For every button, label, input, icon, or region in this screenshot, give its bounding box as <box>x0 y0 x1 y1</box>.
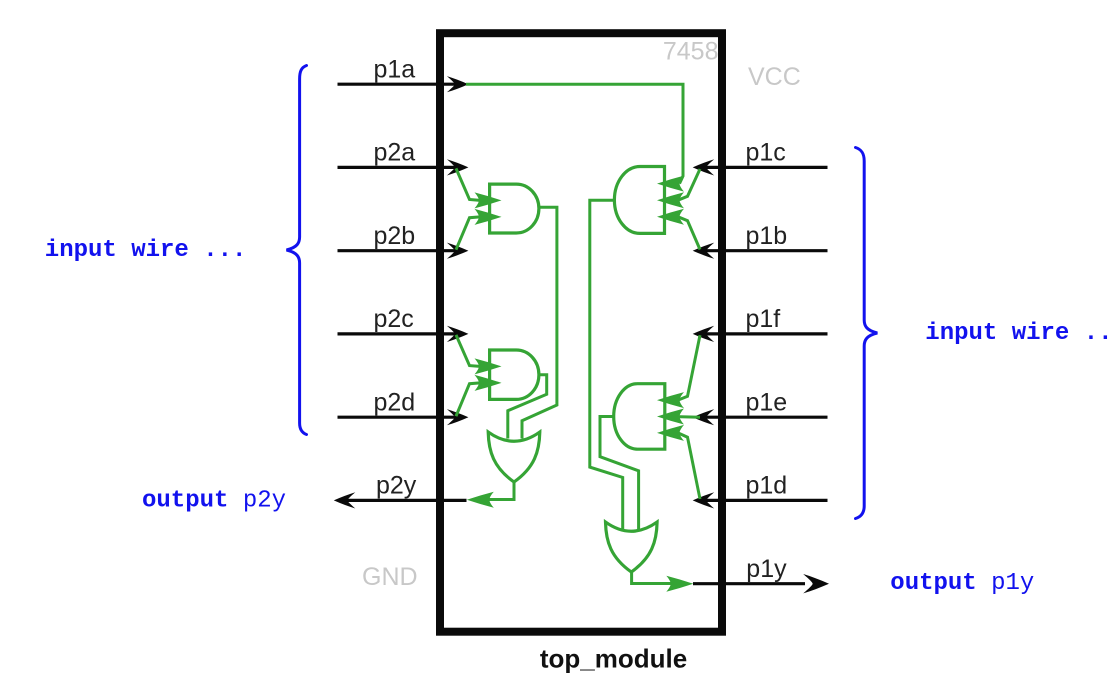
and gate U3 (p1a AND p1c AND p1b), mirrored <box>614 167 664 234</box>
wire OR2 output to p1y <box>632 571 694 592</box>
wire p1b to and gate U3 input 3 <box>657 209 700 250</box>
net B wire U2 output to or gate OR1 input 1 <box>508 375 547 439</box>
svg-text:GND: GND <box>362 563 418 591</box>
left brace grouping input pins <box>287 66 307 435</box>
svg-text:p1d: p1d <box>746 472 788 500</box>
and gate U2 (p2c AND p2d) <box>490 350 539 399</box>
net C wire U3 output to or gate OR2 input 1 <box>590 200 623 530</box>
svg-text:p1f: p1f <box>746 305 781 333</box>
svg-text:output p2y: output p2y <box>142 488 286 515</box>
wire p1a to and gate U3 input 1 <box>466 84 684 191</box>
svg-text:p1b: p1b <box>746 222 788 250</box>
wire p2c to and gate U2 input 1 <box>456 335 502 375</box>
wire p2b to and gate U1 input 2 <box>456 209 502 250</box>
input pin p2d <box>338 388 469 425</box>
svg-text:p2d: p2d <box>374 388 416 416</box>
net D wire U4 output to or gate OR2 input 2 <box>600 417 639 531</box>
svg-text:p2c: p2c <box>374 305 414 333</box>
svg-text:7458: 7458 <box>663 38 719 66</box>
svg-text:p1c: p1c <box>746 139 786 167</box>
svg-text:p1a: p1a <box>374 55 416 83</box>
svg-text:p2a: p2a <box>374 139 416 167</box>
wire OR1 output to p2y <box>467 481 514 508</box>
input pin p1c <box>693 139 828 176</box>
wire p1d to and gate U4 input 3 <box>657 425 700 499</box>
input pin p1a <box>338 55 469 92</box>
and gate U1 (p2a AND p2b) <box>490 184 539 233</box>
wire p1f to and gate U4 input 1 <box>657 335 700 408</box>
input pin p1d <box>693 472 828 509</box>
svg-text:p2y: p2y <box>376 472 417 500</box>
svg-text:input wire ...: input wire ... <box>925 320 1113 347</box>
svg-text:p1y: p1y <box>746 555 787 583</box>
wire p1c to and gate U3 input 2 <box>657 169 700 208</box>
output pin p1y <box>693 555 829 594</box>
svg-text:top_module: top_module <box>540 644 687 674</box>
wire p2d to and gate U2 input 2 <box>456 375 502 416</box>
input pin p1b <box>693 222 828 259</box>
chip outline box 7458 <box>440 33 722 632</box>
input pin p2c <box>338 305 469 342</box>
output pin p2y <box>334 472 467 509</box>
and gate U4 (p1f AND p1e AND p1d), mirrored <box>614 384 665 450</box>
input pin p1f <box>693 305 828 342</box>
input pin p2b <box>338 222 469 259</box>
input pin p2a <box>338 139 469 176</box>
wire p2a to and gate U1 input 1 <box>456 168 502 208</box>
svg-text:VCC: VCC <box>748 63 801 91</box>
or gate OR1 (drives p2y), pointing down <box>488 432 540 482</box>
or gate OR2 (drives p1y), pointing down <box>606 522 658 572</box>
net A wire U1 output to or gate OR1 input 2 <box>522 207 557 438</box>
input pin p1e <box>693 388 828 425</box>
svg-text:output p1y: output p1y <box>890 570 1034 597</box>
right brace grouping input pins <box>856 148 878 519</box>
wire p1e to and gate U4 input 2 <box>657 409 700 425</box>
svg-text:p1e: p1e <box>746 388 788 416</box>
svg-text:input wire ...: input wire ... <box>45 237 247 264</box>
svg-text:p2b: p2b <box>374 222 416 250</box>
